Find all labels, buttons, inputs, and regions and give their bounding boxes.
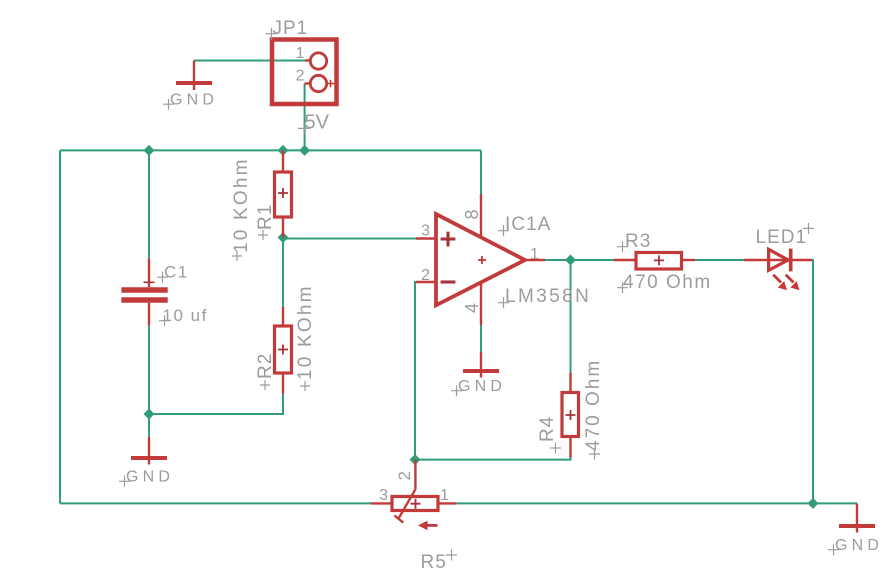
cross GND op-amp origin [451, 385, 462, 396]
capacitor C1 [121, 258, 167, 325]
wire: JP1 pin1 to GND [194, 60, 305, 62]
svg-text:R2: R2 [255, 353, 276, 379]
resistor R4 [562, 373, 579, 458]
pot arrow R5 [418, 521, 438, 531]
cross IC1A origin [498, 225, 509, 236]
svg-text:C1: C1 [164, 263, 189, 282]
wire: left rail [59, 150, 61, 503]
svg-text:R3: R3 [625, 231, 651, 252]
svg-text:5V: 5V [305, 112, 330, 134]
wire: junction to R2 bottom [149, 394, 283, 415]
wire: bottom rail to R5 pin3 [60, 502, 371, 504]
connector JP1 [272, 40, 337, 105]
cross R5 origin [446, 550, 457, 561]
wire: R5 pin1 to GND corner [457, 502, 858, 504]
cross GND bottom-left origin [119, 476, 130, 487]
resistor R3 [614, 253, 695, 270]
cross R1 origin [258, 230, 268, 240]
svg-text:GND: GND [170, 92, 218, 109]
svg-text:R5: R5 [421, 552, 447, 572]
wire: LED cathode drop [812, 260, 813, 503]
junction J6 [144, 409, 155, 420]
cross R2 value origin [300, 381, 310, 391]
cross R3 value origin [617, 282, 628, 293]
svg-text:3: 3 [421, 223, 430, 240]
svg-text:JP1: JP1 [273, 18, 309, 39]
cross GND top-left origin [163, 99, 174, 110]
wire: R1 bottom junction to op-amp pin3 [283, 238, 416, 240]
svg-text:10 uf: 10 uf [163, 306, 208, 325]
cross LM358N origin [498, 297, 509, 308]
ground GND bottom-right [839, 503, 875, 532]
potentiometer R5 [371, 460, 457, 523]
svg-text:3: 3 [379, 487, 388, 504]
wire: R4 bottom to wiper junction [415, 458, 571, 460]
junction J1 [144, 145, 155, 156]
svg-text:470 Ohm: 470 Ohm [623, 272, 712, 293]
cross JP1 origin [266, 28, 278, 40]
cross 10uf origin [159, 315, 170, 326]
cross C1 origin [157, 272, 168, 283]
wire: op-amp pin8 drop from top rail [480, 150, 482, 194]
cross R1 value origin [232, 251, 242, 261]
wire: C1 bottom branch to GND junction [148, 326, 150, 437]
svg-text:R1: R1 [255, 204, 276, 230]
wire: op-amp pin4 to GND [480, 325, 482, 352]
svg-text:IC1A: IC1A [505, 214, 551, 235]
cross R4 value origin [589, 449, 600, 460]
svg-text:R4: R4 [537, 416, 558, 442]
cross R2 origin [260, 380, 270, 390]
svg-text:GND: GND [126, 469, 174, 486]
op-amp IC1A [416, 194, 545, 325]
wire: top rail [60, 149, 481, 151]
ground GND bottom-left [131, 437, 167, 465]
wire: R3 to LED [695, 259, 744, 261]
junction J3 [299, 145, 310, 156]
svg-text:4: 4 [462, 303, 482, 313]
junction J2 [278, 145, 289, 156]
wire: op-amp output to R3 [545, 259, 614, 261]
svg-text:2: 2 [421, 267, 430, 284]
wire: R1 junction down to R2 top [282, 238, 284, 308]
junction J8 [808, 498, 819, 509]
LED arrows [773, 275, 799, 291]
wire: C1 top branch [148, 150, 150, 258]
cross GND bottom-right origin [828, 544, 839, 555]
svg-text:LM358N: LM358N [505, 286, 591, 307]
svg-text:1: 1 [296, 45, 305, 62]
svg-text:10 KOhm: 10 KOhm [295, 284, 316, 380]
wire: JP1 pin2 5V drop [304, 84, 306, 151]
diode LED1 [744, 249, 812, 272]
wire: op-amp pin2 down to R5 wiper junction [415, 282, 416, 460]
svg-text:470 Ohm: 470 Ohm [583, 359, 604, 451]
svg-text:LED1: LED1 [756, 227, 808, 248]
ground GND op-amp [463, 352, 499, 378]
svg-text:1: 1 [440, 487, 449, 504]
svg-text:2: 2 [395, 471, 414, 480]
svg-text:10 KOhm: 10 KOhm [231, 157, 252, 253]
svg-text:2: 2 [296, 68, 305, 85]
cross R3 origin [617, 241, 628, 252]
resistor R1 [275, 150, 292, 237]
cross R4 origin [550, 443, 561, 454]
junction J5 [565, 255, 576, 266]
wire: output junction down to R4 [570, 260, 572, 373]
junction J4 [278, 232, 289, 243]
cross LED1 origin [803, 223, 814, 234]
svg-text:GND: GND [835, 537, 883, 554]
svg-text:8: 8 [462, 209, 482, 219]
resistor R2 [275, 307, 292, 394]
junction J7 [410, 454, 421, 465]
svg-text:1: 1 [530, 246, 539, 263]
ground GND top-left [176, 61, 212, 91]
cross 5V origin [298, 122, 310, 134]
svg-text:GND: GND [458, 378, 506, 395]
